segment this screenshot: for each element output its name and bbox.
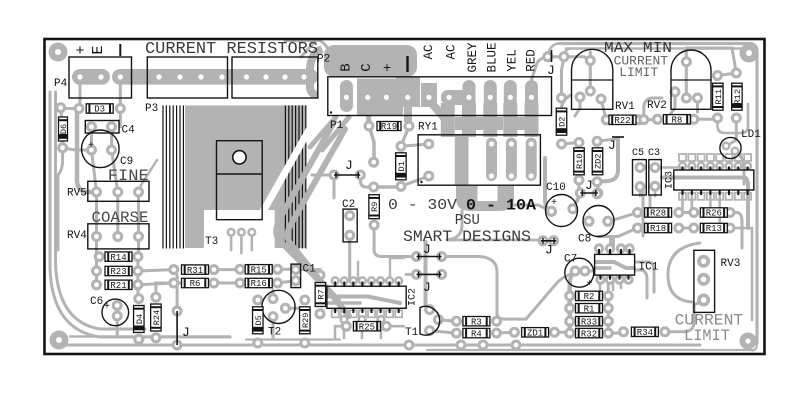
wire: white diagonal gap across T3 — [256, 114, 318, 224]
svg-text:B: B — [339, 63, 355, 71]
resistor R4 — [463, 328, 490, 339]
relay RY1 — [418, 135, 540, 185]
svg-text:R29: R29 — [301, 313, 311, 328]
svg-text:RV3: RV3 — [721, 258, 741, 270]
IC1 pin stubs — [598, 249, 600, 255]
svg-text:ZD2: ZD2 — [594, 154, 604, 169]
svg-text:D4: D4 — [135, 314, 145, 324]
trimpot RV5 pads — [91, 187, 102, 198]
svg-text:P4: P4 — [54, 78, 68, 90]
LED LD1 pads — [722, 142, 731, 151]
svg-text:SMART DESIGNS: SMART DESIGNS — [403, 228, 531, 246]
transistor T2 pads — [268, 293, 279, 304]
svg-text:D6: D6 — [59, 124, 69, 134]
jumper J right of ZD2 — [608, 137, 624, 153]
svg-text:R8: R8 — [671, 116, 682, 126]
connector P4 — [69, 57, 132, 98]
diode D5 pads — [252, 295, 263, 306]
resistor R8 — [663, 115, 690, 126]
diode D5 — [253, 307, 264, 334]
wire: U-trace below relay — [456, 186, 514, 211]
capacitor C10 pads — [546, 206, 557, 217]
wire: P1 square pad block — [357, 79, 403, 116]
transistor T1 — [420, 306, 440, 335]
capacitor C8 pads — [584, 216, 595, 227]
jumper pads mid — [575, 188, 586, 199]
resistor R7 pads — [315, 270, 326, 281]
resistor R22 — [609, 115, 636, 126]
svg-text:D2: D2 — [558, 117, 568, 127]
diode D6 — [59, 117, 70, 141]
capacitor C4 — [85, 121, 119, 134]
svg-text:LIMIT: LIMIT — [684, 327, 730, 345]
wire: relay RY1 internal bars — [455, 135, 469, 185]
svg-text:R23: R23 — [110, 267, 126, 277]
mounting hole bottom-left — [50, 331, 69, 350]
svg-text:R33: R33 — [581, 317, 597, 327]
svg-text:R15: R15 — [251, 266, 267, 276]
zener ZD2 pads — [592, 136, 603, 147]
jumper J mid — [580, 178, 598, 196]
jumper J bottom1 — [417, 242, 442, 260]
capacitor C5 C3 pads — [635, 162, 646, 173]
svg-text:R11: R11 — [714, 89, 724, 104]
svg-text:R25: R25 — [359, 322, 375, 332]
svg-text:+: + — [88, 141, 94, 152]
jumper J bottom3 — [541, 238, 556, 258]
board outline — [45, 39, 765, 354]
IC1 pads — [594, 243, 604, 253]
resistor R10 — [574, 148, 585, 175]
resistor R23 — [105, 266, 132, 277]
resistor R2 — [576, 291, 603, 302]
svg-text:+: + — [381, 63, 397, 71]
svg-text:LD1: LD1 — [741, 129, 761, 141]
svg-text:RY1: RY1 — [418, 122, 438, 134]
svg-text:RV1: RV1 — [615, 101, 635, 113]
trimpot RV3 pads — [697, 255, 710, 268]
wire: C8 to resistor rows — [599, 228, 638, 237]
resistor R11 — [713, 83, 724, 110]
svg-text:J: J — [547, 63, 555, 78]
resistor R19 — [377, 122, 401, 133]
diode D4 — [134, 306, 145, 333]
wire: mid-right region — [545, 158, 552, 211]
node P2 blob — [310, 49, 322, 95]
svg-text:R21: R21 — [110, 281, 126, 291]
resistor pads top right — [601, 114, 612, 125]
svg-text:C6: C6 — [90, 296, 103, 308]
svg-text:C2: C2 — [342, 199, 355, 211]
IC2 pads — [331, 276, 340, 285]
diode D2 — [556, 108, 567, 135]
transistor T2 — [262, 290, 295, 323]
connector P3 block B — [232, 57, 318, 98]
LED LD1 — [720, 137, 741, 158]
svg-text:+: + — [75, 43, 84, 60]
IC3 pin stubs — [682, 167, 684, 171]
wire: top-right region — [548, 57, 591, 61]
capacitor C4 pads — [86, 121, 97, 132]
svg-text:R7: R7 — [316, 289, 326, 299]
svg-text:RV4: RV4 — [67, 230, 87, 242]
capacitor C8 — [583, 206, 614, 237]
trimpot RV5 — [88, 181, 149, 201]
resistor R6 — [182, 278, 209, 289]
IC3 pads — [678, 161, 687, 170]
jumper J center — [334, 158, 360, 178]
svg-text:R16: R16 — [251, 279, 267, 289]
trimpot RV3 — [694, 250, 715, 312]
svg-text:R31: R31 — [187, 266, 203, 276]
svg-text:IC3: IC3 — [665, 171, 676, 189]
connector P1 pads — [344, 95, 349, 100]
svg-text:P1: P1 — [330, 120, 344, 132]
capacitor C3 — [649, 160, 662, 195]
svg-text:PSU: PSU — [455, 212, 480, 229]
svg-text:C10: C10 — [546, 182, 566, 194]
svg-text:J: J — [182, 325, 190, 340]
svg-text:YEL: YEL — [506, 49, 520, 72]
IC2 — [327, 286, 406, 308]
resistor pads mid right — [632, 207, 643, 218]
mounting hole top-left — [49, 43, 68, 62]
zener ZD1 — [522, 328, 549, 339]
svg-text:RV2: RV2 — [647, 100, 667, 112]
IC3 — [674, 170, 754, 190]
transformer T3 winding stripes right — [284, 105, 286, 248]
trimpot RV4 pads — [91, 231, 102, 242]
transformer T3 pads — [227, 228, 236, 237]
IC2 pin stubs — [334, 282, 336, 288]
svg-text:T1: T1 — [405, 327, 419, 339]
svg-text:C9: C9 — [120, 156, 133, 168]
resistor R16 — [245, 278, 272, 289]
svg-text:R13: R13 — [706, 224, 722, 234]
resistor R31 R6 pads — [168, 264, 179, 275]
zener ZD2 — [592, 148, 603, 175]
zener R12 — [732, 83, 743, 110]
svg-text:IC2: IC2 — [408, 288, 419, 306]
trimpot RV2 outline — [671, 50, 711, 109]
capacitor C5 — [633, 160, 647, 195]
resistor R18 — [645, 223, 672, 234]
relay RY1 pads — [423, 139, 434, 150]
resistor R26 — [700, 208, 727, 219]
mounting hole top-right — [740, 44, 759, 63]
diode D4 pads — [133, 293, 144, 304]
diode D1 — [396, 153, 407, 180]
svg-text:C8: C8 — [578, 234, 591, 246]
svg-text:J: J — [345, 158, 353, 173]
svg-text:R26: R26 — [706, 209, 722, 219]
diode D2 pads — [556, 93, 567, 104]
resistor R28 — [645, 208, 672, 219]
svg-text:GREY: GREY — [466, 42, 480, 73]
jumper J bottom2 — [417, 271, 442, 295]
transformer T3 center bracket — [217, 141, 263, 220]
wire: P1 pad pills — [340, 80, 353, 112]
svg-text:J: J — [423, 280, 431, 295]
diode D6 pads — [55, 102, 66, 113]
capacitor C7 pads — [570, 266, 581, 277]
resistor R33 — [576, 317, 603, 328]
resistor R1 — [576, 304, 603, 315]
jumper pads center — [329, 170, 340, 181]
wire: misc connections left block — [66, 107, 79, 110]
svg-text:R28: R28 — [650, 209, 666, 219]
wire: P4 to P3 feed band — [72, 69, 110, 85]
svg-text:D5: D5 — [254, 315, 264, 325]
svg-text:T3: T3 — [205, 236, 218, 248]
trimpot RV2 pads — [681, 56, 692, 67]
svg-text:R9: R9 — [370, 202, 380, 212]
jumper pads bottom center — [411, 251, 422, 262]
svg-text:C3: C3 — [648, 148, 660, 159]
jumper J top — [547, 50, 555, 78]
wire: RV1 RV2 inner verticals — [589, 61, 592, 92]
resistor R14 R23 R21 pads — [94, 251, 105, 262]
jumper J pads left — [172, 306, 183, 317]
capacitor C9 — [82, 130, 120, 168]
transformer T3 winding stripes left — [162, 105, 164, 248]
svg-text:D3: D3 — [94, 105, 105, 115]
svg-text:J: J — [608, 138, 616, 153]
connector P3 block A — [147, 57, 227, 98]
trimpot RV4 — [88, 224, 149, 249]
capacitor C1 — [291, 264, 301, 288]
wire: feeders from P1 down to relay RY1 — [441, 103, 455, 137]
svg-text:P2: P2 — [317, 54, 330, 66]
svg-text:T2: T2 — [268, 327, 281, 339]
connector P1 — [328, 77, 552, 116]
svg-text:P3: P3 — [145, 103, 158, 115]
resistor R7 — [315, 283, 326, 307]
svg-text:IC1: IC1 — [639, 262, 659, 274]
diode D1 pads — [396, 141, 407, 152]
svg-text:R12: R12 — [733, 89, 743, 104]
resistor R9 — [369, 195, 380, 219]
diode D3 pads — [74, 103, 85, 114]
svg-text:+: + — [551, 198, 557, 209]
resistor R29 pads — [299, 295, 310, 306]
resistor R3 — [463, 317, 490, 328]
svg-text:R10: R10 — [575, 154, 585, 169]
svg-text:BLUE: BLUE — [486, 42, 500, 72]
svg-text:FINE: FINE — [108, 167, 149, 185]
resistor R29 — [300, 307, 311, 334]
svg-text:C7: C7 — [564, 254, 577, 266]
svg-text:J: J — [585, 178, 593, 193]
capacitor C2 — [343, 209, 357, 242]
svg-text:J: J — [545, 243, 553, 258]
svg-text:C1: C1 — [303, 264, 317, 276]
svg-text:R18: R18 — [650, 224, 666, 234]
capacitor C1 pads — [290, 264, 301, 275]
resistor R15 R16 pads — [235, 264, 246, 275]
resistor R24 — [151, 304, 162, 331]
svg-text:R22: R22 — [614, 116, 630, 126]
svg-text:R32: R32 — [581, 329, 597, 339]
resistor R14 — [105, 252, 132, 263]
svg-text:AC: AC — [445, 44, 459, 59]
capacitor C9 pads — [86, 145, 97, 156]
svg-text:R4: R4 — [471, 329, 482, 339]
svg-text:R3: R3 — [471, 317, 482, 327]
svg-text:RV5: RV5 — [67, 188, 87, 200]
resistor R21 — [105, 280, 132, 291]
transformer T3 core block — [185, 105, 306, 210]
capacitor C10 — [546, 195, 578, 227]
trimpot RV1 pads — [585, 55, 596, 66]
svg-text:R24: R24 — [152, 310, 162, 325]
mounting hole bottom-right — [740, 333, 757, 350]
svg-text:+: + — [104, 302, 110, 313]
jumper J vertical left — [177, 311, 190, 345]
capacitor C6 pads — [112, 300, 123, 311]
wire: transformer diagonals — [276, 122, 338, 300]
resistor R31 — [182, 265, 209, 276]
svg-text:AC: AC — [422, 44, 436, 59]
wire: bottom horizontal bus lines — [70, 335, 230, 338]
jumper pads top — [542, 51, 553, 62]
svg-text:COARSE: COARSE — [92, 209, 149, 227]
capacitor C7 — [565, 258, 594, 287]
svg-text:R19: R19 — [381, 122, 397, 132]
capacitor C2 pads — [344, 210, 355, 221]
svg-text:R1: R1 — [584, 304, 595, 314]
svg-text:CURRENT RESISTORS: CURRENT RESISTORS — [145, 40, 318, 59]
capacitor C6 — [102, 299, 129, 326]
svg-text:E: E — [90, 45, 107, 54]
resistor pads bottom right — [618, 326, 629, 337]
svg-text:ZD1: ZD1 — [527, 329, 543, 339]
op-amp IC1 — [595, 254, 635, 275]
resistor R25 pads — [341, 321, 352, 332]
resistor R32 — [576, 328, 603, 339]
connector P4 holes — [77, 74, 82, 79]
resistor R13 — [700, 223, 727, 234]
connector P3 holes — [156, 74, 161, 79]
svg-text:RED: RED — [525, 49, 539, 72]
svg-text:+: + — [587, 279, 593, 290]
svg-text:R6: R6 — [190, 279, 201, 289]
wire: trace behind RESISTORS into P2 blob — [301, 40, 328, 57]
svg-text:C5: C5 — [632, 148, 644, 159]
via pads on bottom bus — [404, 340, 415, 351]
wire: band behind MAX MIN to right border — [560, 44, 757, 344]
svg-text:C: C — [359, 63, 375, 71]
resistor R15 — [245, 265, 272, 276]
wire: extra top-right connections — [561, 95, 571, 128]
resistor R24 pads — [150, 292, 161, 303]
diode D3 — [86, 104, 113, 115]
transistor T1 pads — [424, 304, 435, 315]
wire: left-edge vertical bus with rounded bottom corner — [50, 92, 230, 337]
svg-text:D1: D1 — [397, 161, 407, 171]
wire: bottom-right region — [570, 272, 575, 284]
svg-text:R2: R2 — [584, 292, 595, 302]
trimpot RV1 outline — [572, 49, 613, 109]
resistor R9 pads — [368, 157, 379, 168]
svg-text:0 - 30V: 0 - 30V — [388, 197, 457, 214]
resistor R34 — [631, 327, 658, 338]
resistor R25 — [353, 322, 380, 333]
svg-text:LIMIT: LIMIT — [619, 65, 658, 80]
svg-text:R34: R34 — [637, 328, 653, 338]
svg-text:C4: C4 — [122, 125, 136, 137]
resistor R10 pads — [574, 137, 585, 148]
resistor R19 pads — [364, 121, 375, 132]
svg-text:R14: R14 — [110, 253, 126, 263]
